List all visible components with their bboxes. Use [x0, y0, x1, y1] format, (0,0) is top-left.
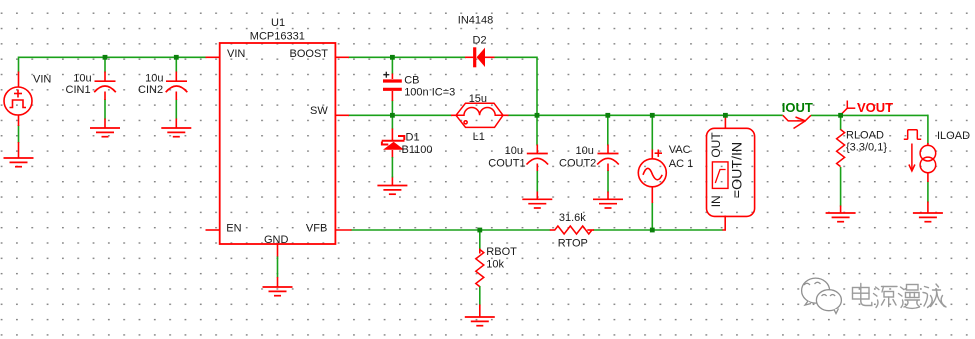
- wire RBOT top lead: [479, 230, 481, 250]
- svg-text:CIN1: CIN1: [66, 84, 91, 96]
- wire VFB pin stub: [335, 229, 351, 231]
- wire VIN source bottom to gnd: [18, 125, 20, 143]
- wire CIN1 top lead: [104, 57, 106, 72]
- wire BOOST pin stub: [335, 56, 349, 58]
- wire L1 leads: [451, 114, 457, 116]
- svg-text:VIN: VIN: [33, 74, 51, 86]
- svg-text:10u: 10u: [73, 72, 91, 84]
- source VAC: [638, 150, 666, 187]
- ground U1 GND: [263, 287, 293, 296]
- resistor RBOT: [476, 250, 484, 287]
- wire D1 green mid: [391, 157, 393, 178]
- capacitor CIN1: [94, 81, 116, 92]
- capacitor COUT2: [597, 154, 619, 165]
- node junction dots: [103, 55, 108, 60]
- wire GND pin stub: [277, 244, 279, 257]
- svg-text:RLOAD: RLOAD: [846, 129, 884, 141]
- source ILOAD: [904, 130, 936, 173]
- wire BOOST rail: [348, 56, 466, 58]
- ground CIN2: [161, 128, 191, 137]
- diode D2: [473, 47, 485, 67]
- wire CIN1 bottom: [104, 99, 106, 120]
- svg-text:IN4148: IN4148: [458, 15, 493, 27]
- ground COUT1: [522, 199, 552, 208]
- wire VIN pin stub: [206, 56, 220, 58]
- wire CIN2 top lead: [175, 57, 177, 72]
- wire RBOT leads red: [479, 249, 481, 254]
- inductor L1: [456, 103, 503, 127]
- wire RBOT bottom lead: [479, 286, 481, 306]
- wire VAC top lead: [651, 115, 653, 150]
- svg-text:U1: U1: [271, 17, 285, 29]
- svg-text:EN: EN: [226, 223, 241, 235]
- svg-text:IOUT: IOUT: [782, 100, 813, 115]
- svg-text:VOUT: VOUT: [857, 100, 893, 115]
- wire U1 GND pin: [277, 256, 279, 278]
- svg-text:MCP16331: MCP16331: [250, 31, 305, 43]
- svg-text:RTOP: RTOP: [558, 238, 588, 250]
- wire VIN source leads: [18, 72, 20, 88]
- svg-text:10u: 10u: [576, 145, 594, 157]
- svg-text:B1100: B1100: [402, 144, 433, 156]
- ground VIN: [4, 158, 34, 167]
- svg-text:GND: GND: [264, 234, 289, 246]
- watermark wechat icon: [802, 278, 842, 313]
- wire CB top lead: [391, 57, 393, 74]
- svg-text:10k: 10k: [486, 259, 504, 271]
- svg-text:D1: D1: [406, 132, 420, 144]
- svg-text:15u: 15u: [469, 93, 487, 105]
- wire IOUT right to VOUT junction: [811, 114, 928, 116]
- wire probe OUT stub: [724, 115, 726, 129]
- wire COUT2 leads: [607, 115, 609, 145]
- ground RLOAD: [826, 213, 856, 222]
- capacitor CIN2: [166, 81, 188, 92]
- wire CB leads: [391, 74, 393, 80]
- wire D2 leads: [465, 56, 473, 58]
- svg-text:BOOST: BOOST: [290, 48, 329, 60]
- svg-text:L1: L1: [473, 131, 485, 143]
- ground D1: [377, 186, 407, 195]
- svg-text:IN: IN: [709, 195, 723, 207]
- svg-text:VIN: VIN: [227, 48, 245, 60]
- wire EN pin stub: [206, 229, 220, 231]
- wire ILOAD top: [927, 115, 929, 144]
- svg-text:10u: 10u: [505, 145, 523, 157]
- svg-text:{3.3/0.1}: {3.3/0.1}: [846, 142, 887, 154]
- svg-text:AC 1: AC 1: [669, 158, 693, 170]
- wire COUT1 leads: [536, 115, 538, 145]
- wire probe IN stub: [723, 216, 726, 231]
- capacitor CB: [383, 81, 402, 89]
- wire RTOP right to VAC junction: [593, 229, 723, 231]
- svg-text:=OUT/IN: =OUT/IN: [729, 142, 745, 198]
- capacitor COUT1: [527, 154, 549, 165]
- wire SW pin stub: [335, 114, 349, 116]
- wire RLOAD bottom lead: [840, 167, 842, 207]
- ground COUT2: [593, 199, 623, 208]
- wire D1 top lead: [391, 115, 393, 129]
- watermark text 电源漫谈 (approximated glyph strokes): [853, 284, 947, 309]
- wire VAC bottom lead: [651, 202, 653, 230]
- wire CIN1 leads: [104, 72, 106, 82]
- svg-text:D2: D2: [473, 35, 487, 47]
- ground ILOAD: [913, 213, 943, 222]
- wire CIN2 leads: [175, 72, 177, 82]
- svg-text:CB: CB: [404, 75, 419, 87]
- wire SW rail L1 to COUT1: [508, 114, 783, 116]
- wire RLOAD bottom red: [840, 206, 842, 214]
- wire CB bottom lead: [391, 100, 393, 115]
- wire VIN source top: [18, 57, 20, 73]
- svg-text:10u: 10u: [145, 72, 163, 84]
- wire input rail VIN y=56.5: [19, 56, 207, 58]
- probe VOUT: [842, 101, 856, 115]
- ground RBOT: [465, 317, 495, 326]
- wire D1 leads: [391, 129, 393, 141]
- svg-text:RBOT: RBOT: [486, 246, 517, 258]
- wire ILOAD leads red: [927, 143, 929, 146]
- resistor RTOP: [555, 226, 592, 234]
- probe block =OUT/IN (loop gain): [707, 128, 755, 216]
- probe IOUT: [783, 115, 811, 128]
- svg-text:OUT: OUT: [709, 132, 723, 158]
- svg-text:31.6k: 31.6k: [559, 212, 586, 224]
- wire SW rail: [348, 114, 452, 116]
- svg-text:COUT1: COUT1: [488, 157, 525, 169]
- source VIN: [4, 87, 32, 115]
- wire corner down to SW rail: [536, 57, 538, 116]
- svg-text:COUT2: COUT2: [559, 157, 596, 169]
- svg-text:100n IC=3: 100n IC=3: [404, 87, 455, 99]
- svg-text:CIN2: CIN2: [138, 84, 163, 96]
- wire RTOP leads red: [550, 229, 556, 231]
- wire COUT2 leads red: [607, 145, 609, 154]
- IC U1 MCP16331 box: [220, 43, 336, 244]
- resistor RLOAD: [837, 130, 845, 167]
- svg-text:SW: SW: [310, 105, 328, 117]
- svg-text:VFB: VFB: [306, 223, 327, 235]
- wire ILOAD bottom lead: [927, 181, 929, 203]
- wire D2 to corner: [494, 56, 538, 58]
- svg-text:ILOAD: ILOAD: [937, 130, 970, 142]
- svg-text:VAC: VAC: [669, 144, 691, 156]
- wire VAC leads red: [651, 150, 653, 160]
- diode D1: [382, 136, 405, 145]
- wire VFB rail y=230: [351, 229, 551, 231]
- ground CIN1: [90, 128, 120, 137]
- wire CIN2 bottom: [175, 99, 177, 120]
- wire COUT1 leads red: [536, 145, 538, 154]
